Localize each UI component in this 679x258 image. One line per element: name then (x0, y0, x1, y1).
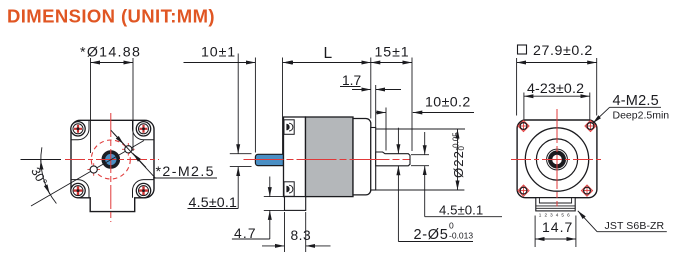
middle circle (536, 139, 577, 180)
centerline vertical (red) (110, 113, 112, 222)
connector tab below plate (285, 197, 306, 211)
plate screw bottom (284, 182, 294, 197)
corner boss arc BL (71, 180, 89, 198)
svg-text:2-Ø5: 2-Ø5 (414, 227, 449, 243)
centerline middle view (red) (244, 159, 410, 161)
plate screw top (284, 120, 294, 135)
svg-text:15±1: 15±1 (375, 45, 410, 61)
leader *2-M2.5 with two arrows at hole (111, 130, 217, 180)
dimension L (body) (284, 45, 371, 119)
svg-text:27.9±0.2: 27.9±0.2 (533, 43, 593, 59)
connector body (536, 198, 575, 211)
motor body (gray) (306, 117, 354, 197)
svg-text:DIMENSION (UNIT:MM): DIMENSION (UNIT:MM) (7, 5, 215, 26)
end cap (353, 119, 371, 195)
dimension 15±1 (output shaft) (371, 45, 412, 151)
corner hole BR (581, 185, 592, 196)
svg-text:4-23±0.2: 4-23±0.2 (527, 81, 584, 97)
centerline horizontal right view (511, 159, 604, 161)
bolt circle (red dashed) (91, 140, 130, 179)
diagonal line through M2.5 holes (30 deg) (31, 141, 144, 207)
dimension 10±0.2 (shaft usable length) (376, 95, 474, 151)
svg-text:-0.05: -0.05 (452, 132, 461, 151)
corner hole TR (585, 120, 596, 131)
svg-text:10±0.2: 10±0.2 (425, 95, 471, 111)
corner boss arc TL (71, 121, 89, 140)
dimension 1.7 (boss) (340, 73, 401, 128)
dimension square 27.9±0.2 (517, 43, 597, 116)
30 degree angular dimension (21, 147, 62, 203)
svg-text:8.3: 8.3 (291, 228, 312, 243)
dimension 2-phi5 (shaft dia) (398, 128, 473, 243)
front face body outline (71, 120, 154, 211)
svg-text:4.5±0.1: 4.5±0.1 (189, 195, 238, 211)
svg-text:L: L (324, 45, 333, 62)
svg-text:123456: 123456 (539, 213, 573, 218)
svg-text:JST S6B-ZR: JST S6B-ZR (605, 220, 665, 232)
screw BR (136, 183, 150, 197)
svg-text:30°: 30° (28, 165, 50, 188)
svg-text:4.5±0.1: 4.5±0.1 (439, 203, 483, 218)
rear shaft (blue) (255, 154, 283, 165)
svg-text:-0.013: -0.013 (449, 231, 473, 241)
dimension 4.5±0.1 (rear shaft dia) (188, 54, 252, 212)
dimension 10±1 (rear shaft) (184, 45, 298, 154)
screw BL (71, 183, 85, 197)
shaft circles (547, 149, 568, 170)
svg-text:4-M2.5: 4-M2.5 (613, 93, 659, 109)
shaft hole center (dark ring + blue bore) (102, 151, 120, 169)
svg-text:Deep2.5min: Deep2.5min (613, 110, 670, 122)
dimension 14.7 connector width (535, 216, 576, 248)
svg-text:Ø22: Ø22 (451, 150, 466, 178)
svg-text:1.7: 1.7 (342, 73, 361, 88)
pilot boss (371, 128, 376, 191)
svg-text:10±1: 10±1 (201, 45, 236, 61)
dimension 4.7 (tab height) (232, 177, 285, 241)
screw TL (71, 122, 85, 136)
screw TR (136, 122, 150, 136)
dimension 4.5±0.1 right (shaft flat) (411, 132, 502, 218)
dimension *phi14.88 (80, 44, 141, 153)
centerline horizontal (red) (65, 159, 159, 161)
front plate (284, 117, 306, 197)
svg-text:*2-M2.5: *2-M2.5 (156, 164, 215, 180)
big pilot circle (525, 128, 588, 191)
centerline vertical right view (556, 109, 558, 207)
svg-text:14.7: 14.7 (542, 219, 573, 235)
corner hole BL (518, 185, 529, 196)
corner hole TL (518, 120, 529, 131)
dimension phi22 boss diameter (372, 129, 466, 190)
leader JST S6B-ZR (578, 211, 667, 232)
svg-text:*Ø14.88: *Ø14.88 (80, 44, 141, 60)
M2.5 hole lower-left (87, 163, 100, 176)
rear face body (517, 120, 597, 198)
svg-text:0: 0 (449, 221, 454, 231)
svg-text:4.7: 4.7 (234, 226, 257, 241)
dimension 8.3 (tab width) (262, 212, 331, 252)
corner boss arc TR (133, 121, 155, 140)
dimension 4-23±0.2 (524, 81, 590, 120)
leader 4-M2.5 Deep2.5min (593, 93, 669, 123)
output shaft (376, 152, 410, 166)
corner boss arc BR (133, 180, 155, 198)
M2.5 hole upper-right (122, 143, 135, 156)
